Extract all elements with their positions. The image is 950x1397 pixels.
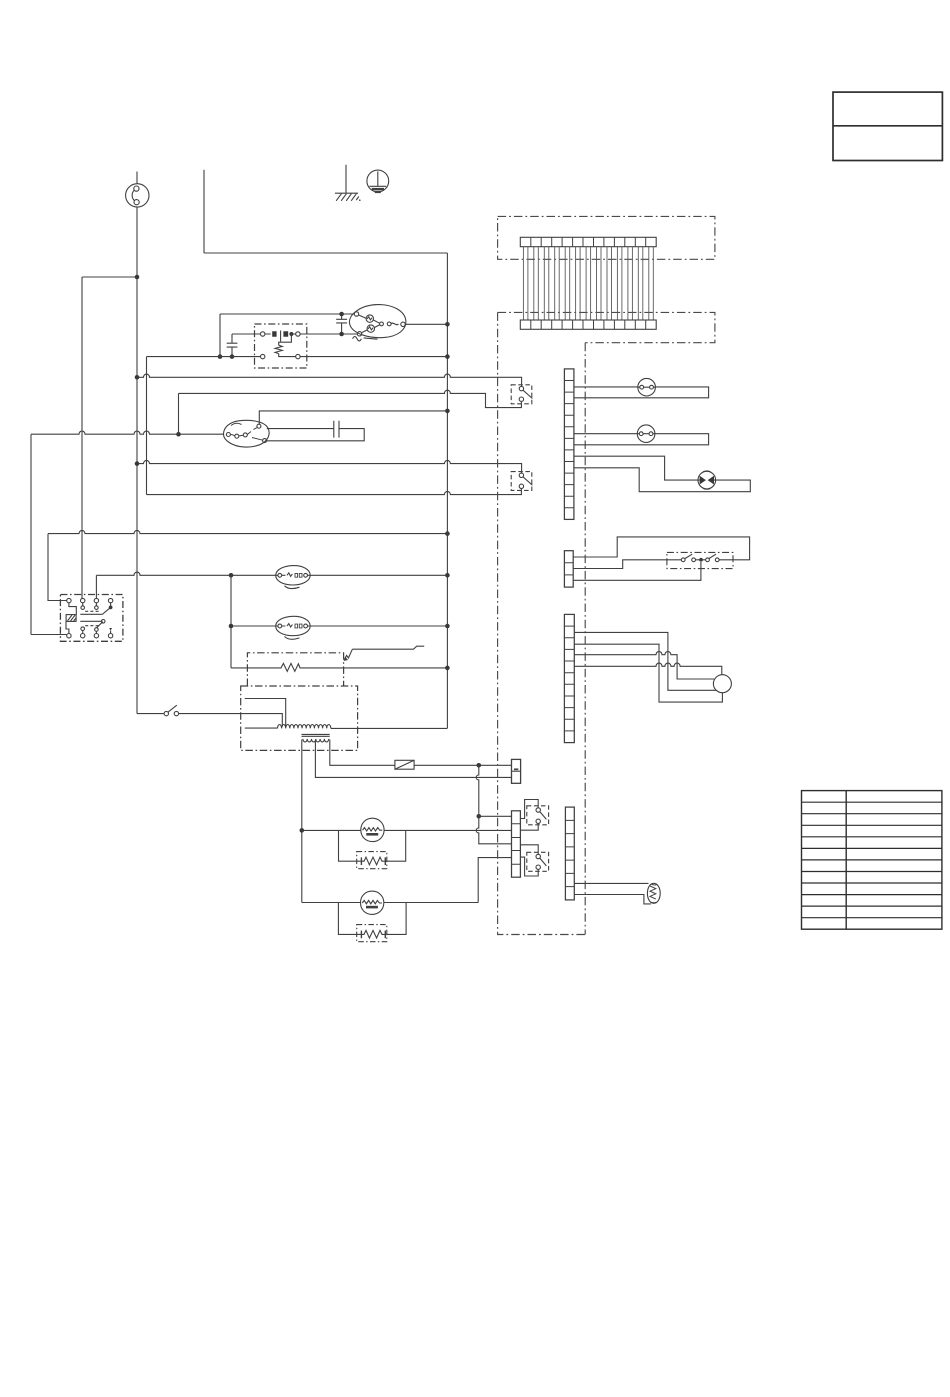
buzzer wire y830.4 [302,829,512,831]
fan top wire y393.4 [178,393,180,434]
timer terminals bottom [67,634,71,638]
wire y816.3 to CN-B [479,815,512,817]
title box [833,92,942,160]
wire y713.6 from x137 to primary [137,714,282,727]
compressor pins and windings [354,312,358,316]
transformer box [241,686,358,750]
buzzer parallel resistor loop [339,830,406,864]
thermostat TH1 oval [276,566,311,585]
main bus x447.4 [446,253,448,728]
motor wire 3 (hops x659,x667.9) [574,652,714,680]
capacitor C1 x341.6 [336,314,347,334]
primary coil [278,725,331,729]
wire y463.6 to door switch 2 (hops x146.5,x447.4) [137,460,522,473]
wire TH1 to bus [308,574,448,576]
door switch 1 [511,385,532,404]
wire y393.4 return (hop x447.4) [179,390,522,407]
primary tap line 1 [245,699,286,727]
sensor PS (photo) [698,471,716,489]
vertical x96.4 to timer terminal 3 [95,575,97,598]
lamp1 loop [574,387,709,398]
wire top horizontal y253 [204,252,447,254]
lamp parallel resistor loop [338,903,406,939]
wire y575.3 to thermostat (hop x137) [96,572,277,575]
motor wire 1 [574,632,716,690]
plug P1 [126,184,149,207]
switch S3 [527,806,549,825]
wire y634.5 to timer bottom terminal 1 [31,634,67,636]
wire y434 to fan motor (hops x82,x137,x146.5) [31,431,224,434]
ribbon bottom bar [520,320,656,329]
wire to center contact [573,562,701,580]
solenoid wire B [574,895,651,904]
lamp resistor box [357,925,387,942]
connector CN-B [512,811,521,877]
motor wire 4 (hops x659,x667.9,x677.1) [574,663,722,675]
timer motor winding path [69,603,76,615]
connector CN-E [564,614,574,742]
fan riser to bus [259,411,447,424]
fan cap loop [267,421,364,441]
lamp2 loop [574,434,709,445]
wire to left contact [573,560,681,569]
wire coil to bus bottom corner [331,727,448,729]
connector CN-F [565,807,574,900]
ribbon top bar [520,237,656,246]
wire y533.6 (hops x82,x137) [48,530,447,533]
sensor loop [574,456,750,492]
capacitor C2 x232 [227,334,238,357]
switch S3 wires [520,800,538,819]
secondary coil [303,739,329,742]
buzzer BZ [361,818,384,841]
wire TH2 row y626 [231,625,447,627]
connector CN-D [564,551,573,587]
ribbon wires [523,247,653,320]
thermal cutout lever [344,649,352,659]
wire y494.6 return (hop x447.4) [147,489,522,495]
cabinet boundary left dashed [498,312,586,934]
relay coil path [279,334,292,345]
switch S4 wires [520,845,538,855]
board dashed box top [498,216,715,259]
vertical x82 to timer terminal 2 [81,277,83,598]
relay contacts box [667,552,733,568]
parts table [802,791,942,930]
fan motor blob [224,420,270,447]
solenoid SV [647,883,660,903]
lamp L1 [638,378,656,396]
start relay box [255,324,307,368]
board dashed box bottom edges [498,312,715,342]
secondary lead center [315,741,511,778]
solenoid wire A [574,882,648,884]
wire top riser x204 [203,170,205,253]
heater wire y667.9 with resistor [231,663,447,671]
cabinet boundary right dashed [584,343,586,935]
wire y377.3 to door switch 1 (hops x146.5,x447.4) [137,374,522,386]
vertical x31 [30,434,32,634]
wire y314 [220,313,354,315]
timer contact stems and contacts [83,603,111,606]
wire L line down from plug [136,207,138,713]
vertical x146.5 [146,357,148,495]
wire y857.6 CN-B to lamp loop [478,858,511,903]
connector CN-C [564,369,574,520]
vertical x478.8 (bumps over y777.4 and y830.4) [476,765,511,844]
relay PTC marks [272,331,288,337]
timer box [60,595,123,642]
buzzer resistor box [357,852,387,869]
bottom lamp wire y902.5 [302,902,478,904]
compressor M squiggle [353,337,362,341]
door switch 2 [511,472,532,491]
wire to right contact [573,537,749,560]
vertical x48 to timer terminal 1 [48,534,67,601]
timer terminals top [67,598,71,602]
wire y334 relay row [232,333,357,335]
node (137,277) wire to left [82,276,137,278]
lamp LP [361,891,384,914]
vertical x220 [219,314,221,357]
ground chassis symbol [335,165,358,193]
protective earth circle symbol [367,170,389,192]
thermostat TH2 oval [276,616,311,635]
secondary lead right + fuse wire [330,740,512,766]
compressor out wire y324.3 [405,323,447,325]
lamp L2 [637,425,655,443]
vertical x231 thermostat branch [230,575,232,668]
relay terminals [261,332,265,336]
motor M [713,675,731,693]
lamp door switch SW-L [164,711,168,715]
compressor motor oval [349,305,405,338]
transformer core [302,734,330,736]
motor wire 2 [574,644,722,702]
wire plug top [136,172,138,184]
wire y356.6 lower row [147,356,448,358]
fuse F1 [395,760,414,769]
2-pin connector CN-A [512,759,521,783]
secondary lead left [301,740,303,903]
primary tap line 3 [245,727,278,729]
defrost heater box [247,653,343,686]
switch S4 [527,852,549,871]
